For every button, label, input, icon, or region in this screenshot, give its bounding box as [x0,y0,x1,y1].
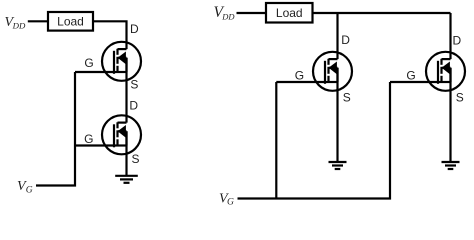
svg-text:DD: DD [12,21,26,31]
svg-text:G: G [227,198,234,208]
svg-text:D: D [453,34,462,48]
svg-text:S: S [132,152,140,166]
svg-text:Load: Load [276,6,303,20]
node VG (left) label [17,179,33,196]
svg-text:G: G [406,69,415,83]
ground (right circuit, under M3) [329,162,347,169]
wire source M1 to drain M2 [125,58,127,123]
wire VG rail (left) [36,72,75,186]
transistor M2 (bottom left NMOS) [102,115,141,154]
ground (left circuit) [115,176,138,183]
transistor M1 (top left NMOS) [102,42,141,81]
svg-text:D: D [130,22,139,36]
node VG (right) label [219,192,234,208]
wire source M4 to ground [449,68,451,162]
svg-text:DD: DD [221,12,235,22]
wire VG rail (right) [238,82,391,199]
wire rail to drain M3 [336,13,338,59]
wire load to drain M1 [93,21,127,49]
svg-text:S: S [456,91,464,105]
wire VDD to load (right) [237,12,267,14]
wire VG branch to gate M3 [275,82,277,199]
wire gate M4 [390,81,438,83]
load resistor box (right) [266,3,313,23]
wire top rail (right) [313,12,451,14]
wire gate M2 [75,144,114,146]
load resistor box (left) [48,12,93,31]
svg-text:S: S [343,91,351,105]
wire source M2 to ground [125,131,127,176]
svg-text:D: D [341,33,350,47]
svg-text:D: D [129,99,138,113]
svg-text:G: G [84,132,93,146]
wire gate M3 [276,81,325,83]
node VDD (left) label [5,15,26,31]
wire VDD to load (left) [28,20,48,22]
svg-text:G: G [26,186,33,196]
svg-text:G: G [84,56,93,70]
wire gate M1 [75,71,114,73]
transistor M3 (right circuit left NMOS) [313,52,352,91]
wire rail to drain M4 [449,13,451,59]
svg-text:G: G [295,69,304,83]
svg-text:Load: Load [57,15,84,29]
svg-text:S: S [130,78,138,92]
wire source M3 to ground [336,68,338,162]
node VDD (right) label [214,4,236,22]
transistor M4 (right circuit right NMOS) [426,52,465,91]
ground (right circuit, under M4) [442,162,460,169]
